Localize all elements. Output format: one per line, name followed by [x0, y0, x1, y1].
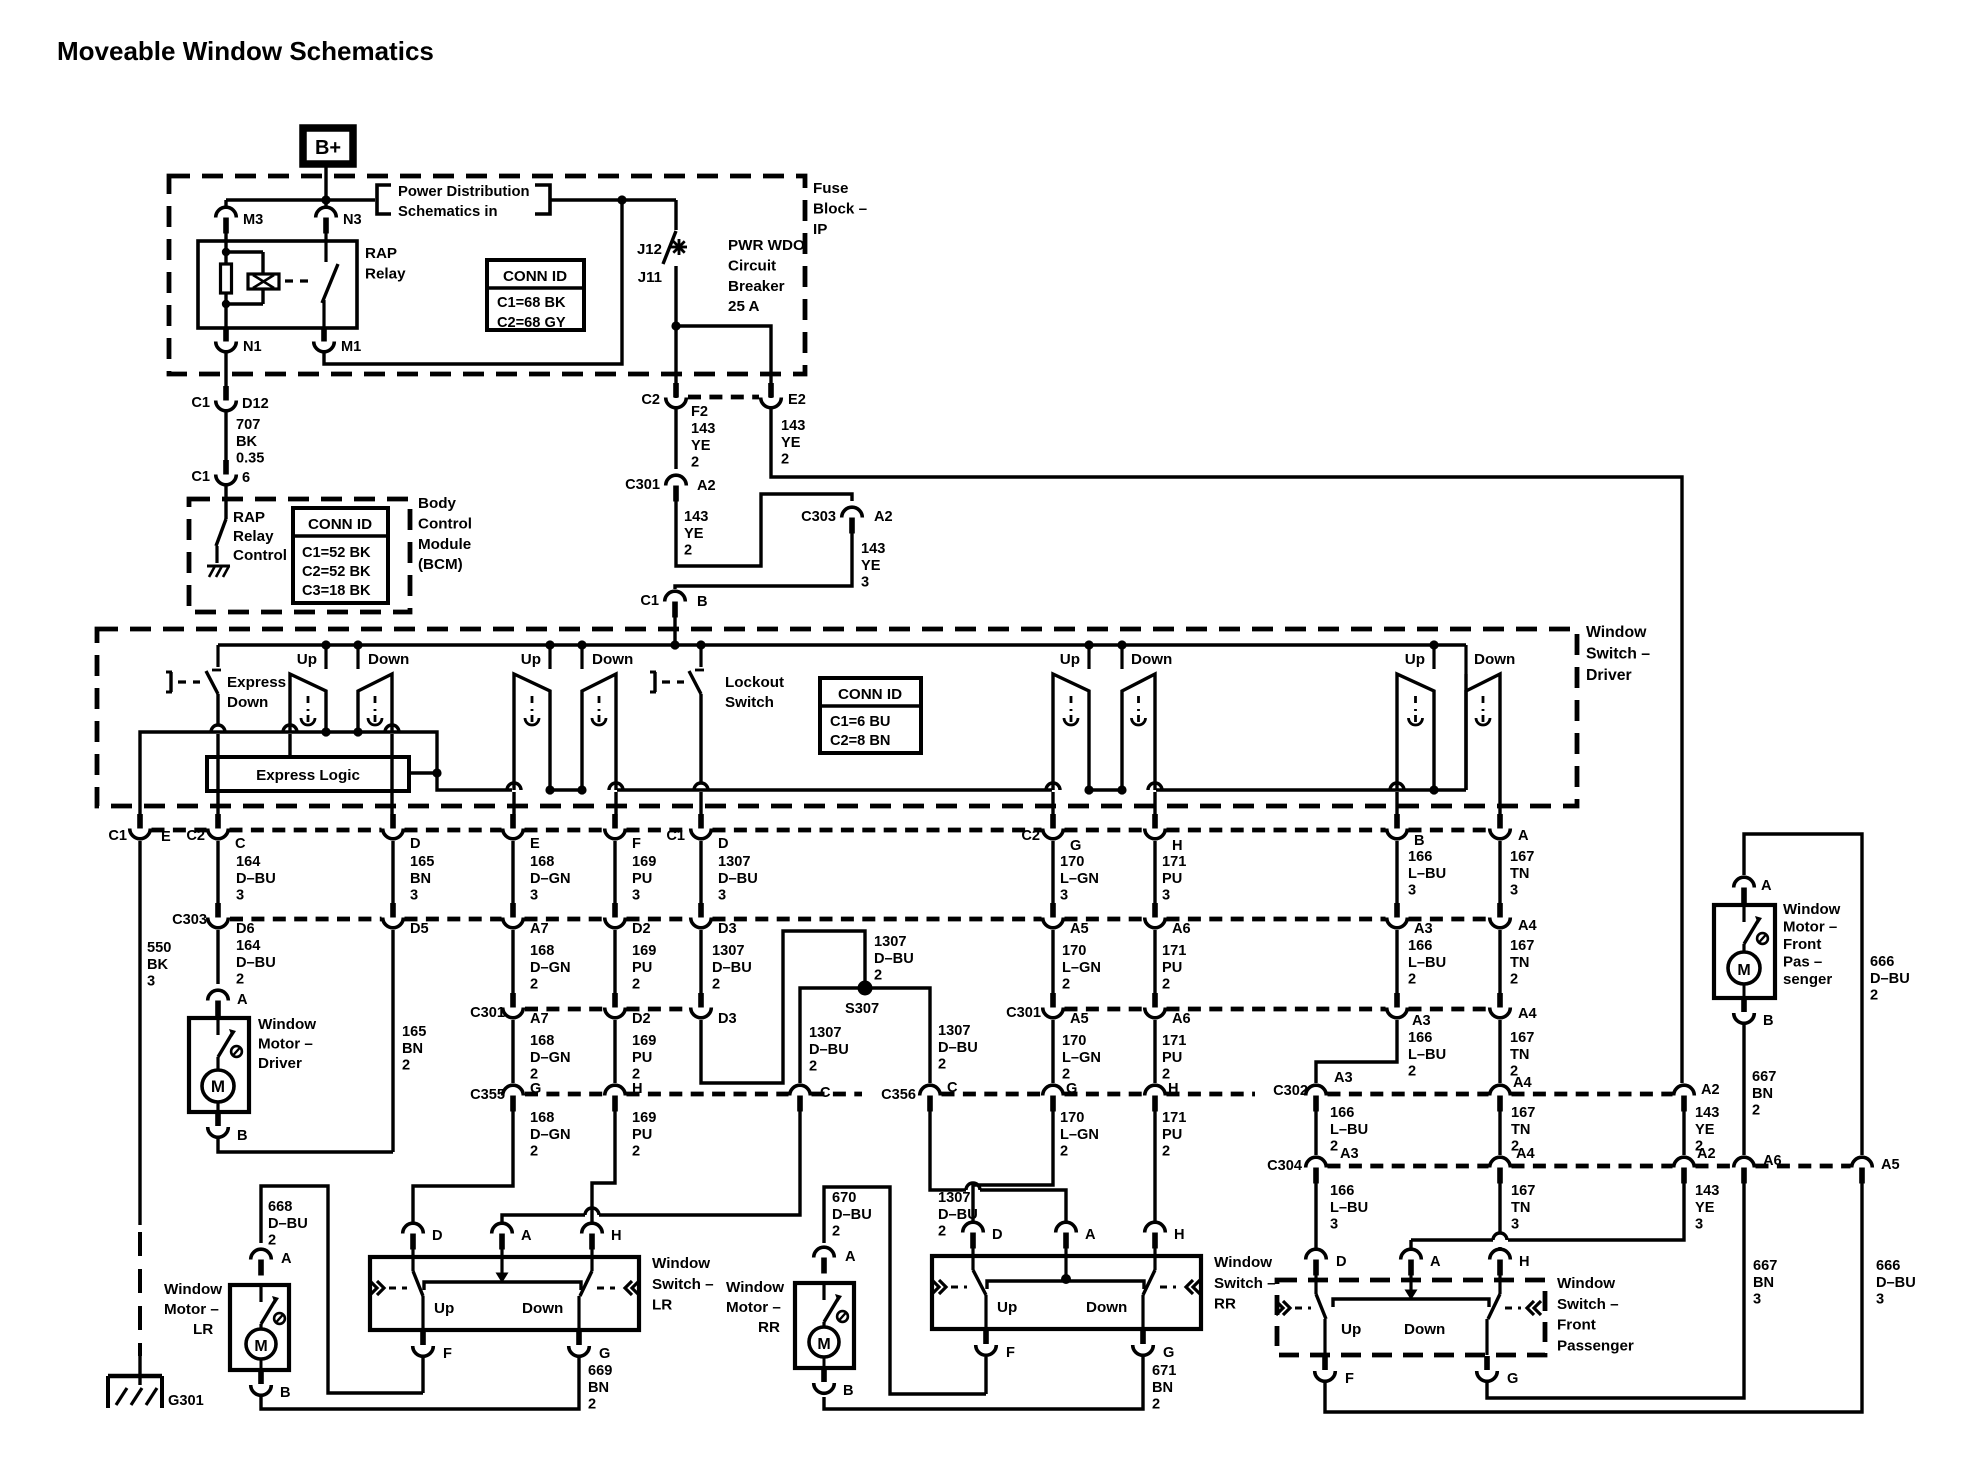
wire C1 B to bus — [673, 615, 676, 645]
svg-text:H: H — [632, 1081, 643, 1097]
svg-text:A: A — [281, 1251, 292, 1267]
svg-text:Window: Window — [652, 1255, 710, 1272]
svg-text:A2: A2 — [874, 509, 893, 525]
bus right end down — [1464, 645, 1467, 674]
svg-text:Down: Down — [1131, 651, 1172, 668]
svg-text:Pas –: Pas – — [1783, 954, 1822, 971]
RAP relay control switch — [224, 486, 227, 519]
express logic box — [207, 757, 409, 791]
svg-text:C303: C303 — [172, 912, 207, 928]
svg-text:667: 667 — [1752, 1069, 1776, 1085]
svg-text:Breaker: Breaker — [728, 278, 785, 295]
svg-text:A: A — [845, 1249, 856, 1265]
svg-text:YE: YE — [781, 435, 801, 451]
door up pair2 — [514, 674, 550, 790]
svg-text:B: B — [1414, 833, 1425, 849]
svg-text:2: 2 — [809, 1059, 817, 1075]
svg-text:G: G — [599, 1346, 610, 1362]
svg-text:L–BU: L–BU — [1408, 866, 1446, 882]
dot door up pair5 — [1429, 785, 1438, 794]
svg-text:L–GN: L–GN — [1062, 1050, 1101, 1066]
svg-text:167: 167 — [1511, 1183, 1535, 1199]
splice S307 — [858, 981, 873, 996]
svg-text:3: 3 — [861, 575, 869, 591]
window switch driver dashed box — [97, 629, 1577, 806]
connector C1 D12 — [223, 386, 229, 401]
connector A LR motor — [258, 1260, 264, 1276]
svg-text:Motor –: Motor – — [164, 1301, 219, 1318]
connector C2 G row1 — [1050, 814, 1056, 829]
svg-text:169: 169 — [632, 1033, 656, 1049]
svg-text:B: B — [1763, 1013, 1774, 1029]
svg-text:C301: C301 — [625, 477, 660, 493]
svg-text:C1: C1 — [666, 828, 685, 844]
svg-text:PU: PU — [632, 1127, 652, 1143]
connector C304 A2 — [1681, 1168, 1687, 1184]
tick down pair1 — [356, 645, 359, 669]
svg-text:1307: 1307 — [938, 1190, 970, 1206]
svg-text:164: 164 — [236, 854, 261, 870]
window switch RR box — [932, 1256, 1201, 1329]
wire N3 stub — [324, 200, 327, 207]
connector C304 A3 — [1313, 1168, 1319, 1184]
svg-text:L–GN: L–GN — [1060, 871, 1099, 887]
svg-text:3: 3 — [1060, 888, 1068, 904]
svg-text:Express Logic: Express Logic — [256, 767, 360, 784]
wire G col to LR switch D — [413, 1110, 513, 1222]
connector D row1 — [390, 814, 396, 829]
connector H2 row4 — [1152, 1096, 1158, 1112]
circuit breaker star — [671, 246, 687, 249]
svg-text:D: D — [1336, 1254, 1347, 1270]
wire A4 row3 to row4 — [1498, 1020, 1501, 1083]
tick down pair2 — [580, 645, 583, 669]
svg-text:H: H — [1168, 1081, 1179, 1097]
svg-text:H: H — [1174, 1227, 1185, 1243]
svg-text:D5: D5 — [410, 921, 429, 937]
svg-text:Window: Window — [1586, 624, 1647, 641]
wire B+ to junction — [324, 164, 327, 198]
svg-text:A3: A3 — [1414, 921, 1433, 937]
wire F column — [609, 783, 623, 790]
svg-text:Lockout: Lockout — [725, 674, 784, 691]
svg-text:Passenger: Passenger — [1557, 1337, 1634, 1354]
svg-text:C1=68 BK: C1=68 BK — [497, 295, 566, 311]
wire breaker down — [674, 266, 677, 398]
wire C355 C to LR switch A — [599, 1110, 800, 1215]
connector H RR switch — [1152, 1233, 1158, 1249]
express down wire — [216, 694, 219, 725]
svg-text:2: 2 — [1152, 1397, 1160, 1413]
svg-text:D: D — [718, 836, 729, 852]
svg-text:J11: J11 — [638, 269, 662, 286]
svg-text:C3=18 BK: C3=18 BK — [302, 583, 371, 599]
dot door up pair1 — [321, 727, 330, 736]
svg-text:143: 143 — [861, 541, 885, 557]
svg-text:2: 2 — [691, 455, 699, 471]
svg-text:1307: 1307 — [712, 943, 744, 959]
wire B col jog to C302 — [1316, 1020, 1397, 1083]
RR motor thermal switch — [822, 1283, 825, 1300]
express down switch blade — [216, 645, 219, 667]
svg-text:D–BU: D–BU — [236, 871, 276, 887]
svg-text:Up: Up — [1060, 651, 1080, 668]
connector C304 A5 — [1859, 1168, 1865, 1184]
svg-text:E: E — [161, 829, 171, 845]
connector C301 A5 row3 — [1050, 993, 1056, 1008]
door down pair2 — [582, 674, 616, 790]
FP mech left — [1276, 1301, 1283, 1315]
svg-text:25 A: 25 A — [728, 298, 760, 315]
connector G RR switch — [1140, 1330, 1146, 1344]
svg-text:167: 167 — [1510, 849, 1534, 865]
svg-text:B: B — [697, 594, 708, 610]
wire A column — [1498, 790, 1501, 814]
connector A6 row3 — [1152, 993, 1158, 1008]
svg-text:A2: A2 — [1701, 1082, 1720, 1098]
svg-text:2: 2 — [938, 1224, 946, 1240]
svg-text:167: 167 — [1510, 1030, 1534, 1046]
svg-text:2: 2 — [402, 1058, 410, 1074]
svg-text:PU: PU — [1162, 960, 1182, 976]
svg-text:Front: Front — [1557, 1317, 1596, 1334]
connector D5 row2 — [390, 903, 396, 918]
svg-text:A: A — [521, 1228, 532, 1244]
connector C303 D6 row2 — [215, 903, 221, 918]
wire M3 stub — [224, 200, 227, 207]
svg-text:2: 2 — [1162, 1144, 1170, 1160]
junction dot M1 branch — [617, 195, 626, 204]
svg-text:C1: C1 — [640, 593, 659, 609]
svg-text:2: 2 — [1510, 972, 1518, 988]
wire H col to LR switch H — [592, 1110, 615, 1222]
svg-text:C1: C1 — [108, 828, 127, 844]
svg-text:L–GN: L–GN — [1062, 960, 1101, 976]
svg-text:A4: A4 — [1516, 1146, 1536, 1162]
svg-text:707: 707 — [236, 417, 260, 433]
svg-text:2: 2 — [632, 1144, 640, 1160]
wire M1 to junction — [324, 200, 622, 364]
svg-text:A5: A5 — [1070, 921, 1089, 937]
svg-text:168: 168 — [530, 1110, 554, 1126]
svg-text:1307: 1307 — [874, 934, 906, 950]
off-page bracket Power Distribution Schematics in — [377, 185, 391, 214]
dot door up pair4 — [1084, 785, 1093, 794]
LR switch internal bar — [424, 1282, 581, 1290]
door up pair4 — [1053, 674, 1089, 790]
svg-text:Circuit: Circuit — [728, 257, 776, 274]
svg-text:1307: 1307 — [938, 1023, 970, 1039]
connector F LR switch — [420, 1331, 426, 1345]
connector C304 A4 — [1497, 1168, 1503, 1184]
svg-text:168: 168 — [530, 854, 554, 870]
svg-text:3: 3 — [1162, 888, 1170, 904]
svg-text:PU: PU — [632, 960, 652, 976]
svg-text:169: 169 — [632, 1110, 656, 1126]
svg-text:G: G — [1066, 1081, 1077, 1097]
connector A driver motor — [215, 1001, 221, 1017]
connector A2 row4 — [1681, 1096, 1687, 1112]
svg-text:A: A — [1085, 1227, 1096, 1243]
svg-text:A7: A7 — [530, 921, 549, 937]
svg-text:A5: A5 — [1881, 1157, 1900, 1173]
svg-text:170: 170 — [1060, 854, 1084, 870]
svg-text:Up: Up — [297, 651, 317, 668]
svg-text:2: 2 — [1752, 1103, 1760, 1119]
RR mech left — [932, 1280, 939, 1294]
svg-text:C1=52 BK: C1=52 BK — [302, 545, 371, 561]
svg-text:C1: C1 — [191, 395, 210, 411]
connector A3 row3 — [1394, 993, 1400, 1008]
connector B LR motor — [258, 1370, 264, 1384]
svg-text:M: M — [1737, 962, 1750, 979]
svg-text:6: 6 — [242, 470, 250, 486]
RR switch A arrow — [1064, 1247, 1067, 1276]
fuse block IP dashed box — [169, 176, 805, 374]
svg-text:3: 3 — [1695, 1217, 1703, 1233]
svg-text:666: 666 — [1876, 1258, 1900, 1274]
svg-text:Up: Up — [1341, 1321, 1361, 1338]
svg-text:D–BU: D–BU — [874, 951, 914, 967]
lockout wire to D — [699, 694, 702, 783]
svg-text:A: A — [237, 992, 248, 1008]
svg-text:2: 2 — [684, 543, 692, 559]
connector G FP switch — [1484, 1356, 1490, 1370]
svg-text:Down: Down — [1404, 1321, 1445, 1338]
svg-text:A7: A7 — [530, 1011, 549, 1027]
svg-text:Relay: Relay — [365, 265, 406, 282]
svg-text:CONN ID: CONN ID — [503, 268, 567, 285]
svg-text:B: B — [843, 1383, 854, 1399]
svg-text:Block –: Block – — [813, 200, 867, 217]
wire LR F down — [421, 1356, 424, 1393]
svg-text:143: 143 — [691, 421, 715, 437]
connector C1 6 — [223, 460, 229, 475]
svg-text:Control: Control — [418, 515, 472, 532]
svg-text:2: 2 — [588, 1397, 596, 1413]
svg-text:Switch –: Switch – — [652, 1276, 714, 1293]
connector D3 row2 — [698, 903, 704, 918]
svg-text:BN: BN — [410, 871, 431, 887]
svg-text:666: 666 — [1870, 954, 1894, 970]
driver motor M — [202, 1070, 234, 1102]
door down pair4 — [1122, 674, 1155, 790]
svg-text:3: 3 — [147, 974, 155, 990]
svg-text:N3: N3 — [343, 212, 362, 228]
svg-text:2: 2 — [832, 1224, 840, 1240]
svg-text:A4: A4 — [1518, 1006, 1538, 1022]
svg-text:D6: D6 — [236, 921, 255, 937]
svg-text:167: 167 — [1511, 1105, 1535, 1121]
svg-text:RR: RR — [1214, 1296, 1236, 1313]
svg-text:D–BU: D–BU — [268, 1216, 308, 1232]
wire C356 C to RR switch A — [930, 1110, 966, 1190]
svg-text:667: 667 — [1753, 1258, 1777, 1274]
svg-text:3: 3 — [530, 888, 538, 904]
dot door down pair1 — [353, 727, 362, 736]
svg-text:D–BU: D–BU — [712, 960, 752, 976]
svg-text:A: A — [1518, 828, 1529, 844]
svg-text:170: 170 — [1062, 1033, 1086, 1049]
connector C304 A6 — [1741, 1168, 1747, 1184]
svg-text:Motor –: Motor – — [258, 1036, 313, 1053]
svg-text:2: 2 — [1408, 1064, 1416, 1080]
svg-text:G: G — [530, 1081, 541, 1097]
svg-text:TN: TN — [1510, 1047, 1529, 1063]
svg-text:Front: Front — [1783, 936, 1821, 953]
wire relay N1 down — [224, 353, 227, 387]
wire H column — [1148, 783, 1162, 790]
svg-text:168: 168 — [530, 1033, 554, 1049]
connector row C304 dashes — [1328, 1164, 1489, 1169]
svg-text:M1: M1 — [341, 339, 361, 355]
svg-text:171: 171 — [1162, 943, 1186, 959]
connector F RR switch — [983, 1330, 989, 1344]
connector A7 row2 — [510, 903, 516, 918]
svg-text:M3: M3 — [243, 212, 263, 228]
connector A FP switch — [1408, 1260, 1414, 1276]
svg-text:senger: senger — [1783, 971, 1832, 988]
window motor RR box — [795, 1283, 854, 1368]
svg-text:D3: D3 — [718, 1011, 737, 1027]
connector C302 A3 row4 — [1313, 1096, 1319, 1112]
wire LR motor B to G — [261, 1357, 579, 1409]
svg-text:A4: A4 — [1513, 1075, 1533, 1091]
RR motor M — [809, 1327, 839, 1357]
wire FP motor B down to A6 — [1742, 1023, 1745, 1155]
svg-text:B: B — [280, 1385, 291, 1401]
svg-text:169: 169 — [632, 854, 656, 870]
express logic output wire — [409, 771, 435, 774]
svg-text:CONN ID: CONN ID — [838, 686, 902, 703]
svg-text:Up: Up — [997, 1299, 1017, 1316]
svg-text:F: F — [632, 836, 641, 852]
svg-text:2: 2 — [1408, 972, 1416, 988]
svg-text:A6: A6 — [1172, 921, 1191, 937]
svg-text:A: A — [1761, 878, 1772, 894]
connector A4 row3 — [1497, 993, 1503, 1008]
window motor LR box — [230, 1285, 289, 1370]
svg-text:D12: D12 — [242, 396, 269, 412]
connector G LR switch — [576, 1331, 582, 1345]
connector A4 row2 — [1497, 903, 1503, 918]
svg-text:YE: YE — [684, 526, 704, 542]
svg-text:D–BU: D–BU — [236, 955, 276, 971]
connector C301 A2 — [673, 486, 679, 502]
connector B row1 — [1394, 814, 1400, 829]
svg-text:PU: PU — [1162, 1050, 1182, 1066]
svg-text:Express: Express — [227, 674, 286, 691]
connector A FP motor — [1741, 888, 1747, 904]
svg-text:M: M — [817, 1336, 830, 1353]
svg-text:166: 166 — [1408, 938, 1432, 954]
connector A LR switch — [499, 1234, 505, 1250]
svg-text:Down: Down — [592, 651, 633, 668]
express down mech link — [169, 672, 172, 692]
connector C2 F2 — [673, 383, 679, 398]
connector C356 C row4 — [927, 1096, 933, 1112]
connector row dash C2-E2 — [688, 395, 759, 400]
connector C1 E row1 — [137, 814, 143, 829]
svg-text:Switch –: Switch – — [1557, 1296, 1619, 1313]
svg-text:M: M — [254, 1338, 267, 1355]
wire to circuit breaker — [674, 200, 677, 230]
connector M1 — [321, 327, 327, 342]
conn id table window switch driver — [820, 678, 921, 753]
svg-text:3: 3 — [236, 888, 244, 904]
conn id table BCM — [293, 508, 388, 603]
wire D12 to 6 — [224, 412, 227, 461]
svg-text:C2=52 BK: C2=52 BK — [302, 564, 371, 580]
svg-text:Up: Up — [434, 1300, 454, 1317]
dot door down pair2 — [577, 785, 586, 794]
svg-text:L–BU: L–BU — [1330, 1200, 1368, 1216]
svg-text:Module: Module — [418, 536, 471, 553]
wire H col to RR switch H — [1153, 1110, 1156, 1221]
BCM ground symbol — [207, 565, 230, 568]
connector row 4 dashes — [525, 1092, 604, 1097]
svg-text:A4: A4 — [1518, 918, 1538, 934]
svg-text:170: 170 — [1060, 1110, 1084, 1126]
svg-text:C: C — [820, 1085, 831, 1101]
FP motor thermal switch — [1742, 905, 1745, 922]
svg-text:BN: BN — [402, 1041, 423, 1057]
wire D5 long down — [391, 930, 394, 1152]
svg-text:M: M — [211, 1077, 225, 1096]
svg-text:D–GN: D–GN — [530, 960, 571, 976]
svg-text:E2: E2 — [788, 392, 806, 408]
tick up pair1 — [324, 645, 327, 669]
connector F row1 — [612, 814, 618, 829]
door up pair1 — [290, 674, 326, 732]
svg-text:A3: A3 — [1340, 1146, 1359, 1162]
svg-text:TN: TN — [1510, 955, 1529, 971]
wire E2 to window switch feed — [771, 409, 1682, 1083]
svg-text:BN: BN — [1152, 1380, 1173, 1396]
wires between row3 and row4 — [511, 1020, 514, 1083]
svg-text:Down: Down — [368, 651, 409, 668]
wire RR motor B to G — [824, 1357, 1143, 1409]
svg-text:167: 167 — [1510, 938, 1534, 954]
svg-text:3: 3 — [632, 888, 640, 904]
svg-text:171: 171 — [1162, 1110, 1186, 1126]
svg-text:Motor –: Motor – — [726, 1299, 781, 1316]
door up pair1 wire into express logic — [288, 734, 291, 757]
svg-text:1307: 1307 — [809, 1025, 841, 1041]
svg-text:C2: C2 — [186, 828, 205, 844]
svg-text:Window: Window — [1557, 1275, 1615, 1292]
connector B FP motor — [1741, 998, 1747, 1012]
RR switch internal bar — [987, 1281, 1144, 1289]
wires between row1 and row2 — [216, 841, 219, 903]
svg-text:D–BU: D–BU — [1876, 1275, 1916, 1291]
svg-text:(BCM): (BCM) — [418, 556, 463, 573]
svg-text:166: 166 — [1408, 849, 1432, 865]
svg-text:F: F — [1345, 1371, 1354, 1387]
wires between row2 and row3 — [511, 930, 514, 993]
svg-text:3: 3 — [1511, 1217, 1519, 1233]
wire 670 route — [824, 1187, 986, 1394]
svg-text:F: F — [443, 1346, 452, 1362]
window switch front passenger dashed box — [1277, 1280, 1545, 1355]
svg-text:Power Distribution: Power Distribution — [398, 184, 530, 200]
svg-text:143: 143 — [1695, 1105, 1719, 1121]
LR mech right — [597, 1287, 615, 1290]
svg-text:BN: BN — [1753, 1275, 1774, 1291]
svg-text:J12: J12 — [637, 241, 662, 258]
connector row 2 dashes — [230, 917, 382, 922]
connector F FP switch — [1322, 1356, 1328, 1370]
